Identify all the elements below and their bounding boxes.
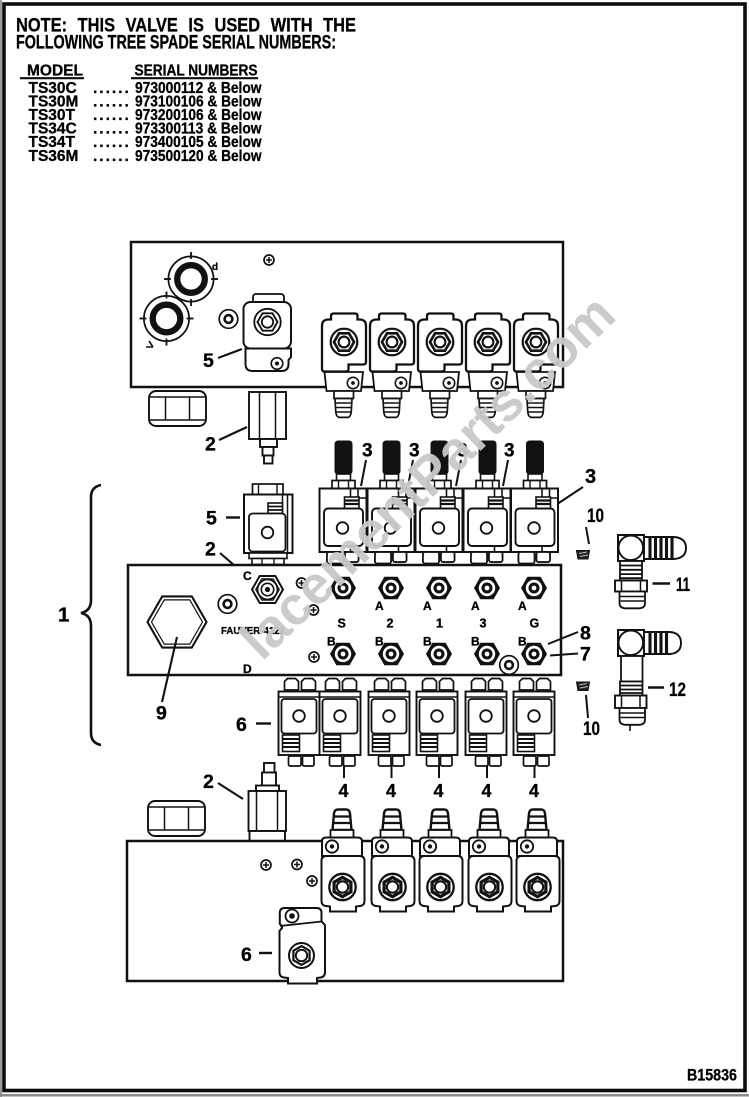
label 4 (unit 4) bbox=[438, 765, 440, 778]
solenoid coil B (top row) bbox=[370, 314, 414, 418]
valve 3 unit 1 bbox=[416, 441, 463, 564]
label 12 bbox=[648, 686, 664, 689]
solenoid coil A (top row) bbox=[322, 314, 366, 418]
svg-text:TS36M: TS36M bbox=[29, 148, 79, 165]
watermark bbox=[229, 283, 627, 670]
screw bottom block b bbox=[292, 860, 302, 870]
svg-text:B: B bbox=[327, 635, 336, 649]
middle manifold block (item 1) bbox=[128, 565, 561, 675]
bottom manifold block bbox=[127, 841, 563, 981]
svg-text:d: d bbox=[212, 262, 218, 273]
svg-text:4: 4 bbox=[339, 781, 349, 801]
svg-text:8: 8 bbox=[580, 623, 591, 645]
relief valve 3 (bottom row) bbox=[420, 810, 463, 912]
svg-text:2: 2 bbox=[205, 539, 216, 561]
plug hexagon 9 on middle block bbox=[148, 596, 207, 647]
svg-text:MODEL: MODEL bbox=[27, 63, 83, 80]
svg-text:4: 4 bbox=[529, 781, 539, 801]
port d (top view) bbox=[164, 252, 218, 306]
brace for item 1 bbox=[81, 485, 101, 745]
svg-text:11: 11 bbox=[676, 574, 690, 596]
fitting 2 (hex, middle block top) bbox=[252, 576, 283, 603]
small plug circle on top block bbox=[219, 310, 238, 329]
solenoid coil C (top row) bbox=[418, 314, 462, 418]
svg-text:10: 10 bbox=[587, 505, 604, 527]
svg-text:C: C bbox=[243, 569, 252, 583]
svg-text:12: 12 bbox=[669, 679, 686, 701]
valve 6 unit 4 bbox=[417, 679, 458, 767]
screw bottom block a bbox=[261, 860, 271, 870]
port nut row A: S bbox=[330, 577, 356, 600]
svg-text:B: B bbox=[518, 635, 527, 649]
hex plug under top block bbox=[149, 391, 206, 426]
valve 6 unit 1 (middle row) bbox=[279, 679, 320, 767]
bottom edge gray line bbox=[0, 1094, 749, 1097]
svg-text:B: B bbox=[375, 635, 384, 649]
orifice plug 10 (upper) bbox=[577, 551, 590, 560]
valve 5 (top section) bbox=[244, 294, 292, 371]
relief valve 2 (bottom row) bbox=[372, 810, 415, 912]
left edge gray strip bbox=[0, 0, 2, 1097]
label 4 (unit 2) bbox=[343, 765, 345, 778]
top manifold block bbox=[131, 242, 563, 387]
svg-text:S: S bbox=[338, 617, 346, 631]
valve 3 unit G bbox=[511, 441, 558, 564]
svg-text:B: B bbox=[471, 635, 480, 649]
svg-text:A: A bbox=[471, 599, 480, 613]
redraw valve3 bottom nuts over block edge bbox=[327, 552, 550, 564]
valve 6 unit 3 bbox=[369, 679, 410, 767]
svg-text:6: 6 bbox=[241, 944, 252, 966]
valve 6 (bottom single) bbox=[280, 908, 326, 984]
valve 2 (top section) bbox=[249, 392, 286, 464]
svg-text:4: 4 bbox=[482, 781, 492, 801]
valve 3 unit S bbox=[320, 441, 367, 564]
svg-text:2: 2 bbox=[203, 771, 214, 793]
svg-text:6: 6 bbox=[236, 714, 247, 736]
svg-text:3: 3 bbox=[585, 466, 596, 488]
solenoid coil D (top row) bbox=[466, 314, 510, 418]
svg-text:A: A bbox=[423, 599, 432, 613]
solenoid coil E (top row) bbox=[514, 314, 558, 418]
svg-text:7: 7 bbox=[580, 644, 591, 666]
svg-text:973500120 & Below: 973500120 & Below bbox=[135, 148, 262, 165]
svg-text:9: 9 bbox=[156, 703, 167, 725]
svg-text:2: 2 bbox=[387, 617, 394, 631]
svg-text:3: 3 bbox=[362, 441, 373, 462]
port nut row A: 1 bbox=[426, 577, 452, 600]
port nut row B: G bbox=[521, 643, 547, 666]
port nut row B: 3 bbox=[474, 643, 500, 666]
label 4 (unit 3) bbox=[391, 765, 393, 778]
svg-text:2: 2 bbox=[205, 434, 216, 456]
valve 3 unit 3 bbox=[464, 441, 511, 564]
svg-text:5: 5 bbox=[203, 350, 214, 372]
screw bottom block c bbox=[307, 876, 317, 886]
port nut row A: 3 bbox=[474, 577, 500, 600]
screw middle block b bbox=[309, 605, 319, 615]
valve 5 (middle section) bbox=[244, 484, 293, 565]
valve 6 unit 5 bbox=[466, 679, 507, 767]
elbow fitting 11 bbox=[615, 535, 686, 608]
svg-text:......: ...... bbox=[93, 148, 131, 165]
screw middle block c bbox=[309, 652, 319, 662]
hex plug above bottom block bbox=[148, 801, 205, 836]
svg-text:4: 4 bbox=[386, 781, 396, 801]
svg-text:3: 3 bbox=[480, 617, 487, 631]
svg-text:1: 1 bbox=[436, 617, 443, 631]
orifice plug 10 (lower) bbox=[577, 682, 590, 691]
valve 2 (bottom section) bbox=[249, 763, 287, 842]
label 11 bbox=[653, 582, 671, 585]
valve 6 unit 2 bbox=[320, 679, 361, 767]
port nut row A: G bbox=[521, 577, 547, 600]
svg-text:B15836: B15836 bbox=[687, 1067, 737, 1085]
svg-text:A: A bbox=[375, 599, 384, 613]
elbow fitting 12 bbox=[615, 630, 681, 731]
relief valve 5 (bottom row) bbox=[517, 810, 560, 912]
svg-text:D: D bbox=[243, 662, 252, 676]
svg-text:1: 1 bbox=[58, 604, 69, 627]
port nut row A: 2 bbox=[378, 577, 404, 600]
label 4 (unit 6) bbox=[534, 765, 536, 778]
valve 6 unit 6 bbox=[514, 679, 555, 767]
relief valve 1 (bottom row) bbox=[322, 810, 365, 912]
relief valve 4 (bottom row) bbox=[469, 810, 512, 912]
screw middle block a bbox=[297, 578, 307, 588]
svg-text:G: G bbox=[530, 617, 540, 631]
label 4 (unit 5) bbox=[486, 765, 488, 778]
valve 3 unit 2 bbox=[368, 441, 415, 564]
port nut row B: S bbox=[330, 643, 356, 666]
port nut row B: 1 bbox=[426, 643, 452, 666]
svg-text:10: 10 bbox=[583, 718, 600, 740]
screw on top block bbox=[264, 255, 274, 265]
svg-text:3: 3 bbox=[504, 441, 515, 462]
svg-text:SERIAL NUMBERS: SERIAL NUMBERS bbox=[135, 63, 258, 80]
svg-text:4: 4 bbox=[434, 781, 444, 801]
ring near G port (item 7) bbox=[500, 656, 519, 675]
svg-text:B: B bbox=[423, 635, 432, 649]
small ring on middle block bbox=[218, 595, 237, 614]
svg-text:FOLLOWING TREE SPADE SERIAL NU: FOLLOWING TREE SPADE SERIAL NUMBERS: bbox=[16, 32, 336, 53]
port nut row B: 2 bbox=[378, 643, 404, 666]
port (lower-left, top view) bbox=[140, 292, 194, 346]
svg-text:5: 5 bbox=[206, 508, 217, 530]
svg-text:A: A bbox=[518, 599, 527, 613]
